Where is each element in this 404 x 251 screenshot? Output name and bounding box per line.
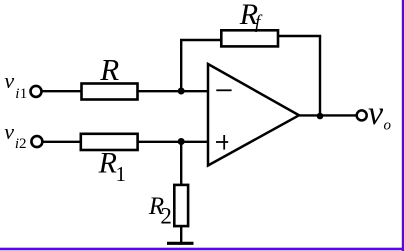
- junction output node: [317, 113, 324, 120]
- label R: [99, 52, 119, 87]
- label R1: [98, 146, 126, 186]
- svg-text:R: R: [98, 146, 117, 179]
- svg-text:o: o: [384, 118, 392, 134]
- wire op-amp output: [298, 114, 357, 116]
- ground: [167, 242, 194, 245]
- label R2: [148, 193, 172, 228]
- svg-text:1: 1: [116, 162, 127, 186]
- resistor R1: [81, 134, 138, 150]
- label v_i1: [4, 68, 27, 102]
- wire R to op-amp minus input: [139, 90, 210, 92]
- resistor R: [82, 84, 138, 100]
- svg-text:2: 2: [19, 136, 27, 152]
- wire R1 to op-amp plus input: [139, 141, 210, 143]
- wire down to output node: [319, 36, 321, 117]
- label v_o: [368, 95, 392, 134]
- wire R2 to ground: [180, 225, 182, 243]
- svg-text:i: i: [15, 86, 19, 102]
- terminal vo: [357, 110, 367, 120]
- label v_i2: [4, 119, 26, 152]
- svg-text:R: R: [99, 52, 119, 87]
- terminal vi2: [31, 136, 42, 147]
- junction node B: [178, 138, 185, 145]
- junction node A: [178, 88, 185, 95]
- svg-text:2: 2: [160, 204, 172, 229]
- svg-text:1: 1: [20, 86, 28, 102]
- wire vi1 to R: [41, 90, 81, 92]
- op-amp U1: [208, 64, 299, 166]
- wire vi2 to R1: [42, 141, 81, 143]
- wire node A up to Rf: [180, 40, 182, 92]
- bottom border: [0, 248, 404, 251]
- svg-text:v: v: [4, 68, 14, 93]
- wire Rf right: [278, 35, 321, 37]
- resistor Rf: [221, 30, 278, 46]
- wire node B down to R2: [180, 142, 182, 186]
- plus sign (non-inverting input): [216, 135, 228, 150]
- minus sign (inverting input): [216, 89, 231, 91]
- label Rf: [239, 0, 263, 33]
- right border: [402, 0, 404, 251]
- terminal vi1: [31, 86, 42, 97]
- wire to Rf left: [180, 39, 222, 41]
- resistor R2: [174, 185, 188, 226]
- svg-text:v: v: [4, 119, 14, 144]
- svg-text:v: v: [368, 95, 384, 132]
